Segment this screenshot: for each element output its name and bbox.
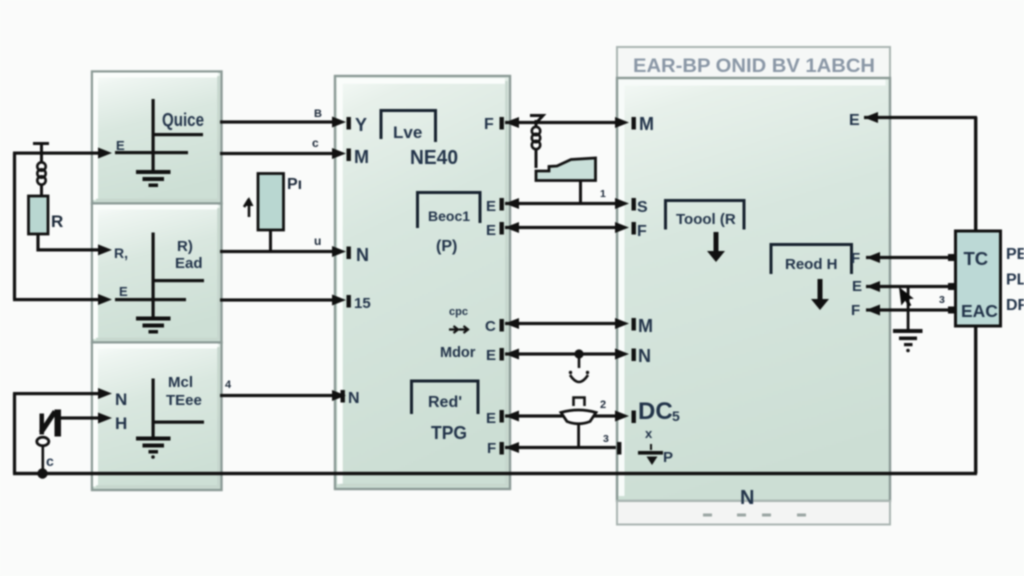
ground GND3 — [136, 437, 171, 459]
wire P1 to u wire — [269, 230, 272, 251]
wire B: U1 to U4 pin Y — [220, 120, 335, 123]
svg-text:R: R — [51, 212, 63, 231]
svg-text:F: F — [487, 440, 496, 457]
svg-text:Mdor: Mdor — [440, 345, 476, 361]
wire: U4 C to U5 pin M — [505, 322, 631, 325]
svg-text:F: F — [637, 223, 647, 240]
svg-text:B: B — [314, 108, 322, 120]
svg-text:M: M — [354, 147, 369, 167]
svg-text:P: P — [663, 449, 673, 466]
svg-text:(P): (P) — [436, 238, 457, 255]
svg-text:E: E — [116, 138, 125, 153]
svg-text:E: E — [486, 347, 496, 364]
pin arrowheads over boxes — [332, 117, 629, 422]
svg-text:DF: DF — [1006, 297, 1024, 314]
U3 tap wire — [153, 421, 204, 424]
svg-text:EAC: EAC — [961, 301, 998, 321]
ground GND2 — [136, 317, 171, 334]
svg-text:Lve: Lve — [393, 123, 422, 142]
connector circle — [37, 437, 49, 446]
U5 pin tick (wire 3) — [617, 442, 621, 455]
svg-text:DC: DC — [638, 398, 673, 425]
wire: U4 E to U5 pin N — [505, 352, 631, 355]
svg-text:Y: Y — [355, 115, 367, 135]
inductor L2 hook — [530, 116, 543, 123]
wire c: U1 to U4 pin M — [220, 152, 335, 155]
svg-text:R): R) — [177, 238, 193, 255]
svg-text:Redʹ: Redʹ — [428, 394, 462, 411]
U4 pin 15 — [347, 295, 351, 308]
U2 lower tap wire — [115, 298, 186, 301]
block U4 (NE40) — [335, 76, 510, 489]
U4 bracket Beoc1 — [418, 193, 481, 229]
svg-text:TPG: TPG — [431, 423, 467, 443]
U5 pin tick (wire 2) — [632, 411, 636, 424]
svg-text:E: E — [119, 284, 128, 299]
svg-text:TC: TC — [964, 248, 989, 269]
bottom rail wire — [13, 472, 977, 475]
U1 lower tap wire — [115, 151, 188, 154]
svg-text:5: 5 — [672, 408, 680, 424]
U5 pin N — [632, 349, 636, 362]
U5 pin S — [632, 198, 636, 211]
U1 gate symbol vertical bar — [152, 99, 155, 174]
svg-text:E: E — [849, 112, 860, 129]
U5 bracket Toool (R — [666, 201, 745, 230]
svg-text:F: F — [484, 116, 494, 133]
sensor flag shape — [536, 158, 596, 181]
svg-text:S: S — [637, 199, 648, 216]
svg-text:u: u — [314, 234, 321, 248]
svg-text:M: M — [638, 316, 653, 336]
down arrow 1 — [714, 232, 719, 253]
wire E to right rail — [864, 116, 977, 119]
U2 upper tap wire — [153, 279, 204, 282]
mouse cursor — [899, 287, 914, 307]
U4 pin Y — [347, 117, 351, 130]
wire D1 to U3 pin H — [61, 416, 101, 419]
wire: U2 to U4 pin 15 — [220, 298, 335, 301]
block U1 (Quice) — [92, 72, 222, 204]
wire 2: U4 E to buzzer to U5 — [505, 414, 563, 417]
svg-text:N: N — [740, 487, 754, 509]
ground GND1 — [136, 170, 171, 187]
right rail wire — [974, 117, 977, 232]
inductor L2 — [532, 120, 540, 168]
svg-text:cpc: cpc — [449, 306, 468, 318]
wire into U3 pin N — [13, 392, 101, 395]
U3 gate symbol vertical bar — [152, 379, 155, 440]
svg-text:N: N — [115, 390, 127, 409]
svg-text:c: c — [312, 136, 319, 150]
svg-text:F: F — [851, 250, 860, 267]
cpc mini arrows — [449, 326, 468, 333]
svg-text:TEee: TEee — [166, 392, 202, 409]
svg-text:Toool (R: Toool (R — [676, 211, 736, 228]
svg-text:M: M — [639, 114, 654, 134]
U4 bracket Red — [412, 381, 479, 414]
U4 pin M — [347, 149, 351, 162]
svg-text:Beoc1: Beoc1 — [428, 208, 470, 224]
wire circle to bottom rail — [42, 446, 45, 474]
svg-text:Ead: Ead — [175, 255, 203, 272]
svg-text:Mcl: Mcl — [168, 374, 193, 391]
U5 bracket Reod H — [771, 245, 852, 275]
U4 bracket Lve — [381, 111, 436, 143]
svg-text:N: N — [348, 390, 360, 407]
inductor L1 — [37, 144, 45, 196]
svg-text:N: N — [356, 245, 369, 265]
svg-text:R,: R, — [114, 245, 128, 261]
svg-text:N: N — [638, 346, 651, 366]
down arrow 2 — [818, 279, 823, 300]
junction dot — [37, 468, 47, 478]
svg-text:E: E — [486, 222, 496, 239]
U4 pin N (upper) — [347, 247, 351, 260]
wire R bottom to U2 pin R — [38, 234, 100, 250]
svg-text:Reod H: Reod H — [785, 256, 838, 273]
svg-text:Pı: Pı — [287, 176, 302, 193]
wire flag to S wire — [579, 181, 582, 204]
svg-text:H: H — [115, 414, 127, 433]
U2 gate symbol vertical bar — [152, 233, 155, 321]
block U3 (Mcl TEee) — [92, 343, 222, 491]
svg-text:4: 4 — [225, 379, 232, 391]
svg-text:3: 3 — [603, 433, 609, 445]
ground GND5 — [893, 288, 923, 352]
U5 pin M (mid) — [632, 318, 636, 331]
wire 4: U3 to U4 pin N — [220, 394, 335, 397]
U6 pin squares — [948, 254, 955, 261]
svg-text:NE40: NE40 — [410, 147, 458, 169]
svg-text:1: 1 — [600, 188, 606, 200]
svg-text:3: 3 — [939, 294, 945, 306]
svg-text:F: F — [851, 302, 860, 319]
svg-text:c: c — [46, 453, 54, 469]
svg-text:E: E — [486, 410, 496, 427]
wire lower-left rail — [13, 394, 16, 474]
wire F to U5 pin M — [505, 121, 631, 124]
svg-text:C: C — [485, 318, 496, 335]
resistor R — [29, 196, 64, 234]
block U6 (TC EAC) — [956, 231, 1001, 326]
wire 3: U4 F to U5 — [505, 446, 619, 449]
svg-text:15: 15 — [354, 295, 371, 312]
block U2 (R Ead) — [92, 204, 222, 343]
svg-text:E: E — [486, 198, 496, 215]
svg-text:Quice: Quice — [162, 110, 204, 130]
antenna tick — [33, 142, 49, 145]
block U5 (EAR-BP ONID BV 1ABCH) — [617, 47, 890, 525]
U5 pin F — [632, 222, 636, 235]
svg-text:E: E — [852, 278, 862, 295]
diode D1 — [40, 410, 62, 437]
U1 upper tap wire — [153, 133, 203, 136]
wire upper-left rail — [13, 153, 16, 300]
svg-text:EAR-BP ONID BV 1ABCH: EAR-BP ONID BV 1ABCH — [633, 56, 875, 77]
wire into U1 pin E — [13, 152, 101, 155]
U4 pin N (lower) — [341, 390, 345, 403]
buzzer BZ1 — [561, 356, 596, 448]
svg-text:2: 2 — [600, 399, 606, 411]
wire: U4 E to U5 pin F — [505, 226, 631, 229]
junction dot on N wire — [574, 349, 583, 358]
power symbol P — [638, 444, 673, 466]
svg-text:PL: PL — [1006, 272, 1024, 289]
U5 pin M (top) — [632, 117, 636, 130]
svg-text:x: x — [645, 426, 653, 441]
wire u: U2 to U4 pin N — [220, 250, 335, 253]
svg-text:PE: PE — [1006, 246, 1024, 263]
wire 1: U4 E to U5 pin S — [505, 202, 631, 205]
wire into U2 pin E — [13, 298, 101, 301]
potentiometer P1 — [244, 174, 302, 231]
